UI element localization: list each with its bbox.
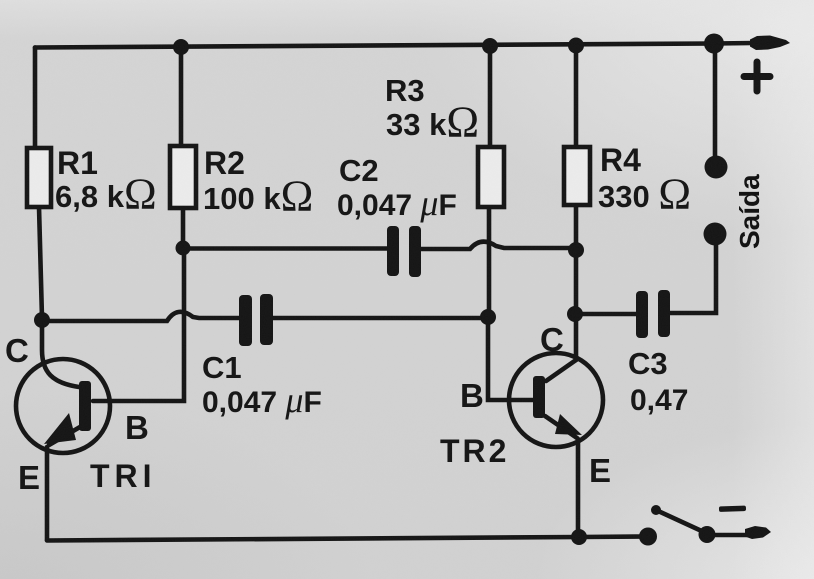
node C2 right on R4 line (568, 242, 584, 258)
svg-text:Saída: Saída (734, 174, 765, 249)
minus arrow (745, 526, 771, 539)
switch lever tip blob (651, 505, 661, 515)
wire top supply rail (35, 43, 753, 48)
wire R3 bottom to node B2 (487, 207, 492, 317)
resistor R2 (170, 146, 196, 208)
wire R2 bottom to node B1 (181, 208, 186, 248)
node switch pivot (699, 526, 716, 543)
wire R3 top drop (488, 45, 493, 147)
node top rail R3 junction (482, 38, 498, 54)
minus symbol (719, 506, 746, 512)
node B1: R2 bottom / C2 left (176, 241, 191, 256)
scan grain overlay (decorative) (0, 0, 1, 1)
wire TR2 collector vertical (574, 314, 579, 360)
node bottom rail switch left (639, 528, 657, 546)
wire output tap from rail (713, 44, 718, 160)
capacitor C1 plates (239, 294, 273, 346)
node bottom rail TR2 emitter (571, 529, 587, 545)
capacitor C3 plates (636, 290, 670, 338)
wire R1 bottom to node TR1-collector (39, 207, 42, 318)
wire C2 left segment (183, 246, 387, 251)
switch S1 lever (656, 510, 706, 533)
node B2: C1 right / R3 bottom (480, 309, 496, 325)
wire C3 right segment up to output terminal (670, 240, 716, 313)
transistor TR1 (16, 318, 110, 453)
wire R1 top drop (33, 48, 38, 149)
wire R4 top drop (574, 45, 579, 147)
output terminal upper (705, 156, 728, 179)
supply arrow positive (750, 36, 790, 51)
wire switch to minus arrow (714, 533, 748, 538)
node top rail R2 junction (173, 39, 189, 55)
node top rail R4 junction (568, 38, 584, 54)
wire C3 left segment (575, 312, 636, 317)
wire C2 right segment with hop over R3 line (421, 242, 571, 249)
wire C1 right segment to node B2 (273, 316, 488, 321)
resistor R4 (564, 147, 590, 205)
plus symbol (744, 62, 770, 91)
node top rail output junction (704, 34, 724, 54)
wire C1 left segment with hop over base line (42, 312, 239, 321)
wire TR2 emitter down to bottom rail (576, 439, 581, 537)
node R1 bottom / C1 left (34, 312, 50, 328)
resistor R3 (478, 147, 504, 207)
wire bottom return rail (47, 537, 648, 541)
wire R4 bottom through node C2R down to node C3L (574, 205, 579, 314)
resistor R1 (27, 148, 51, 207)
output terminal lower (704, 223, 727, 246)
transistor TR2 (509, 353, 603, 447)
wire TR1 emitter down to bottom rail (45, 447, 50, 540)
wire R2 top drop (179, 47, 184, 146)
wire node B1 down to TR1 base corner (93, 248, 184, 401)
wire TR2 base drop and corner (488, 317, 534, 400)
capacitor C2 plates (387, 226, 421, 277)
node TR2 collector / C3 left (567, 306, 583, 322)
